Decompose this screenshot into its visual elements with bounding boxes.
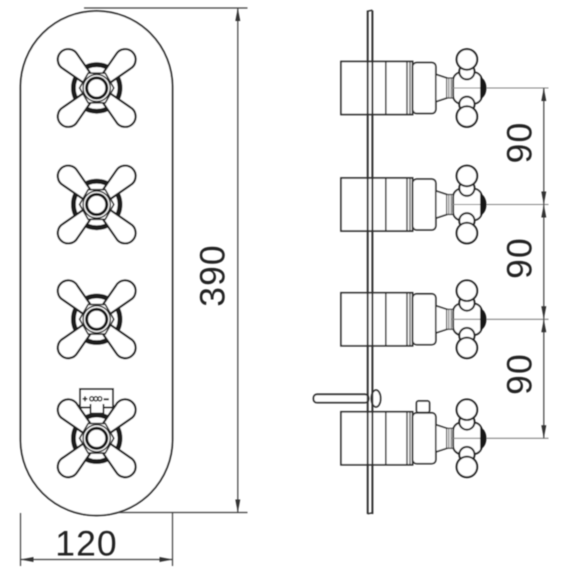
svg-text:90: 90	[500, 237, 540, 279]
svg-text:90: 90	[500, 122, 540, 164]
svg-text:120: 120	[55, 524, 118, 564]
svg-text:390: 390	[193, 244, 233, 307]
svg-text:90: 90	[500, 353, 540, 395]
